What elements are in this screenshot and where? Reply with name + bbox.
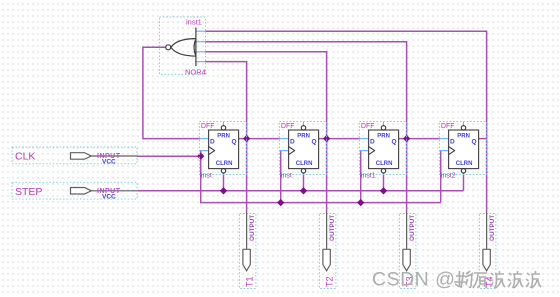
svg-text:T1: T1 [245,276,255,287]
DFF1 CLRN bubble [221,169,225,173]
NOR4 output bubble [166,45,171,50]
input pin STEP [12,182,137,200]
svg-text:OUTPUT: OUTPUT [409,215,416,241]
T3 pin symbol [403,249,410,270]
DFF2 PRN bubble [301,126,305,130]
selection box T4 [480,214,496,289]
wire CLRN riser DFF1 [223,173,225,191]
junction clock rail DFF3 [357,199,364,206]
DFF3 D input stub [360,138,369,140]
svg-text:D: D [210,138,215,145]
DFF2 body [289,130,319,169]
selection box STEP [12,182,137,199]
T4 pin symbol [483,249,490,270]
CLK pin symbol [71,153,92,160]
svg-text:DFF: DFF [201,123,215,130]
svg-text:DFF: DFF [441,123,455,130]
wire STEP / CLRN rail [137,190,464,192]
svg-text:CLRN: CLRN [216,161,233,167]
svg-text:CLRN: CLRN [456,161,473,167]
svg-text:Q: Q [232,138,237,145]
wire clock riser DFF2 [280,151,282,203]
flip-flop U5 (DFF 4) [440,122,487,180]
wire CLRN riser DFF4 [463,173,465,191]
selection box DFF2 [280,122,327,175]
svg-text:VCC: VCC [102,193,116,200]
svg-text:inst: inst [201,173,212,180]
DFF1 clock triangle [209,147,215,155]
wire CLRN riser DFF2 [303,173,305,191]
svg-text:NOR4: NOR4 [185,68,206,77]
svg-text:inst1: inst1 [186,18,202,27]
wire NOR output to D1 (feedback net) [143,47,200,138]
svg-text:Q: Q [472,138,477,145]
wire NOR input 4 net (from Q1) [206,62,247,212]
T3 pin stem [406,212,408,250]
NOR4 input stub 1 [196,30,206,32]
junction clock rail DFF2 [277,199,284,206]
DFF3 PRN bubble [381,126,385,130]
junction Q1 node [243,135,250,142]
svg-text:D: D [450,138,455,145]
svg-text:Q: Q [392,138,397,145]
selection box T1 [240,214,256,289]
DFF4 CLRN bubble [461,169,465,173]
DFF4 D input stub [440,138,449,140]
flip-flop U3 (DFF 2) [280,122,327,180]
selection box T2 [320,214,336,289]
DFF4 PRN top stub [463,122,465,126]
NOR4 gate body [171,28,196,67]
DFF2 CLRN bubble [301,169,305,173]
output pin T3 [400,212,416,289]
wire NOR input 1 net (from Q4) [206,31,487,211]
svg-text:DFF: DFF [361,123,375,130]
wire NOR input 2 net (from Q3) [206,42,407,212]
CLK pin stem [91,155,137,157]
wire clock riser DFF4 [440,151,442,203]
NOR4 input stub 3 [196,51,206,53]
junction Q2 node [323,135,330,142]
DFF3 CLRN bubble [381,169,385,173]
T2 pin symbol [323,249,330,270]
STEP pin stem [91,190,137,192]
svg-text:CSDN @: CSDN @ [372,269,455,291]
junction CLRN rail DFF1 [220,187,227,194]
svg-text:inst: inst [281,173,292,180]
DFF4 clock triangle [449,147,455,155]
selection box DFF3 [360,122,407,175]
DFF3 PRN top stub [383,122,385,126]
DFF2 clock triangle [289,147,295,155]
svg-text:T4: T4 [485,276,495,287]
junction CLRN rail DFF2 [300,187,307,194]
wire Q1 to D2 [239,138,280,140]
junction Q3 node [403,135,410,142]
DFF1 D input stub [200,138,209,140]
wire clock riser DFF3 [360,151,362,203]
DFF3 clock input stub [360,150,369,152]
DFF2 PRN top stub [303,122,305,126]
wire Q3 to D4 [399,138,440,140]
svg-text:DFF: DFF [281,123,295,130]
svg-text:OUTPUT: OUTPUT [489,215,496,241]
selection box DFF1 [200,122,247,175]
wire Q4 to feedback riser [479,138,487,140]
output pin T1 [240,212,256,289]
svg-text:PRN: PRN [297,133,310,139]
DFF2 clock input stub [280,150,289,152]
svg-text:D: D [370,138,375,145]
NOR4 input stub 2 [196,41,206,43]
svg-text:OUTPUT: OUTPUT [329,215,336,241]
junction CLRN rail DFF3 [380,187,387,194]
T1 pin stem [246,212,248,250]
flip-flop U2 (DFF 1) [200,122,247,180]
DFF1 PRN bubble [221,126,225,130]
T2 pin stem [326,212,328,250]
wire Q2 to D3 [319,138,360,140]
DFF4 PRN bubble [461,126,465,130]
output pin T2 [320,212,336,289]
wire CLRN riser DFF3 [383,173,385,191]
input pin CLK [12,147,137,166]
DFF1 PRN top stub [223,122,225,126]
svg-text:STEP: STEP [15,186,42,198]
svg-text:inst1: inst1 [361,173,376,180]
svg-text:inst2: inst2 [441,173,456,180]
DFF3 body [369,130,399,169]
svg-text:Q: Q [312,138,317,145]
svg-text:PRN: PRN [457,133,470,139]
svg-text:OUTPUT: OUTPUT [249,215,256,241]
flip-flop U4 (DFF 3) [360,122,407,180]
T1 pin symbol [243,249,250,270]
svg-text:D: D [290,138,295,145]
DFF3 clock triangle [369,147,375,155]
svg-text:T2: T2 [325,276,335,287]
junction CLK at DFF1 [197,153,204,160]
svg-text:VCC: VCC [102,159,116,166]
NOR4 input stub 4 [196,61,206,63]
selection box T3 [400,214,416,289]
op NOR4 gate U1 [160,17,206,77]
svg-text:CLRN: CLRN [376,161,393,167]
DFF1 clock input stub [200,150,209,152]
DFF4 clock input stub [440,150,449,152]
svg-text:PRN: PRN [217,133,230,139]
wire clock riser DFF1 and clock rail [201,151,441,203]
T4 pin stem [486,212,488,250]
svg-text:CLRN: CLRN [296,161,313,167]
STEP pin symbol [71,188,92,195]
selection box DFF4 [440,122,487,175]
svg-text:PRN: PRN [377,133,390,139]
output pin T4 [480,212,496,289]
svg-text:CLK: CLK [15,151,35,163]
DFF2 D input stub [280,138,289,140]
wire NOR input 3 net (from Q2) [206,52,327,212]
DFF4 body [449,130,479,169]
DFF1 body [209,130,239,169]
selection box CLK [12,147,137,164]
watermark CJK glyph blocks [454,271,541,288]
watermark CSDN [372,269,455,291]
wire CLK net from pin to DFF1 clock [137,155,201,157]
selection box NOR4 [160,17,206,74]
